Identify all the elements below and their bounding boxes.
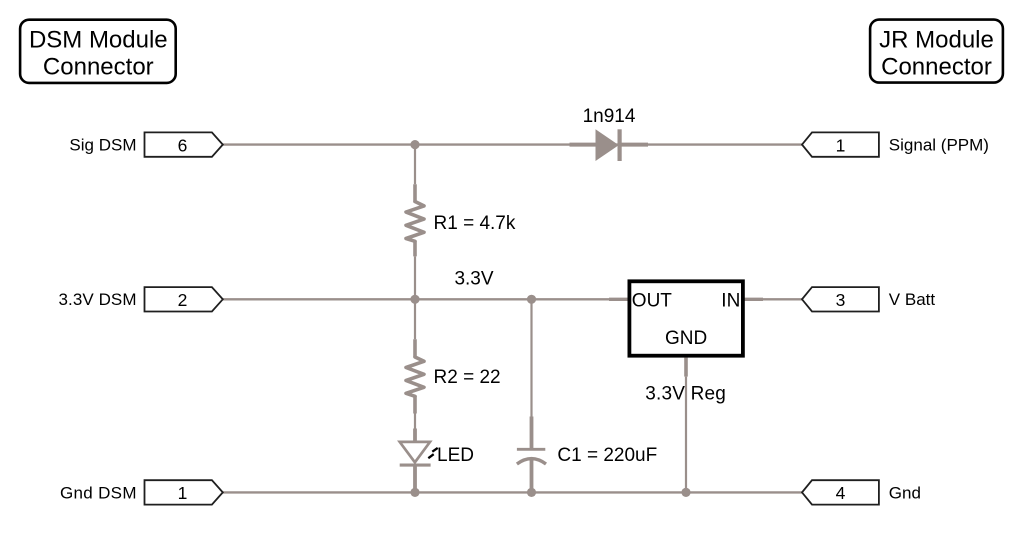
svg-text:R2 = 22: R2 = 22 [434,367,501,388]
svg-text:Connector: Connector [43,54,154,81]
svg-text:GND: GND [665,328,707,349]
svg-text:IN: IN [721,290,740,311]
svg-text:3.3V Reg: 3.3V Reg [645,383,726,404]
svg-text:C1 = 220uF: C1 = 220uF [557,445,657,466]
svg-text:V Batt: V Batt [889,290,936,309]
svg-text:JR Module: JR Module [879,26,994,53]
svg-text:1n914: 1n914 [583,106,636,127]
svg-text:2: 2 [178,290,188,310]
svg-text:LED: LED [437,445,474,466]
svg-text:Connector: Connector [881,54,992,81]
svg-text:1: 1 [836,135,846,155]
svg-text:4: 4 [836,483,846,503]
svg-text:Gnd DSM: Gnd DSM [60,483,137,502]
svg-text:3.3V DSM: 3.3V DSM [59,290,137,309]
svg-text:OUT: OUT [632,290,673,311]
svg-text:Gnd: Gnd [889,483,921,502]
svg-text:6: 6 [178,135,188,155]
svg-text:Signal (PPM): Signal (PPM) [889,136,989,155]
svg-text:1: 1 [178,483,188,503]
svg-text:R1 = 4.7k: R1 = 4.7k [434,213,516,234]
svg-text:3: 3 [836,290,846,310]
svg-text:Sig DSM: Sig DSM [69,136,136,155]
svg-text:3.3V: 3.3V [454,268,493,289]
svg-text:DSM Module: DSM Module [29,26,168,53]
